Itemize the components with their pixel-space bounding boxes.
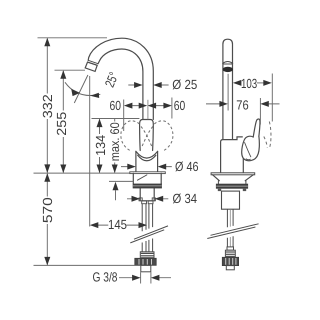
hose ferrule right: [148, 201, 153, 204]
dimension line 255: [62, 71, 64, 173]
escutcheon skirt diagonals: [213, 175, 254, 181]
supply hose lower segment (front view): [227, 236, 233, 247]
body right edge below handle: [242, 159, 244, 173]
locknut lug right: [243, 189, 246, 191]
thread stub: [226, 266, 234, 270]
spout swivel position line: [74, 75, 88, 103]
aerator ring lines (front view): [223, 62, 233, 65]
aerator outlet dark ellipse (front view): [223, 67, 233, 72]
extension line outlet axis vertical: [89, 76, 91, 227]
arrow G3/8 left: [132, 275, 141, 281]
threaded shank: [140, 188, 154, 201]
svg-text:103: 103: [241, 76, 257, 91]
arrow 255 top: [60, 70, 66, 79]
arrow diameter 46 right: [158, 164, 167, 170]
extension line body top: [92, 118, 140, 120]
dimension line diameter 34 shafts: [127, 198, 168, 200]
shank tab right: [152, 198, 155, 201]
lever pivot boss (front view): [242, 136, 260, 161]
locknut lug left: [218, 189, 221, 191]
boss crease line: [245, 143, 251, 157]
arrow 76 right: [260, 101, 269, 107]
boss bottom highlight: [246, 158, 250, 161]
arrow 332 bottom: [44, 164, 50, 173]
spout arc inner edge (side view): [98, 49, 143, 119]
countertop line: [34, 172, 130, 174]
spout arc outer edge (side view): [88, 38, 153, 119]
arrow max 60 upper: [112, 165, 118, 174]
body cylinder sides: [136, 151, 158, 172]
escutcheon flange (front view): [211, 173, 255, 175]
connector crimp sleeve: [225, 250, 235, 257]
extension line pipe axis (front view): [227, 74, 229, 111]
arrow max 60 lower: [113, 182, 119, 191]
locknut dark band (side view): [133, 184, 162, 189]
arrow 76 left: [219, 101, 228, 107]
arrow 60 left inner: [139, 103, 148, 109]
body (front view): [221, 137, 243, 173]
hose end connector (front view): [222, 247, 238, 270]
swivel arc arrowhead right: [90, 93, 99, 98]
connector nut: [222, 257, 238, 265]
hose end connector (side view): [135, 252, 156, 272]
mounting base below counter: [133, 173, 161, 183]
dimension line max 60 upper: [114, 119, 116, 173]
arrow 145 left: [90, 222, 99, 228]
svg-text:76: 76: [236, 97, 248, 112]
extension lines G3/8 stub: [141, 272, 151, 283]
svg-text:Ø 25: Ø 25: [172, 77, 197, 92]
body dome crescent arcs: [136, 151, 158, 160]
svg-text:G 3/8: G 3/8: [93, 270, 118, 285]
25 degree swivel arc: [65, 82, 100, 95]
aerator body (side view): [85, 62, 97, 71]
svg-text:60: 60: [174, 98, 186, 113]
svg-text:332: 332: [40, 94, 55, 118]
svg-text:60: 60: [110, 98, 122, 113]
hose ferrule left: [142, 201, 147, 204]
arrow G3/8 right: [151, 275, 160, 281]
shank tab left: [139, 198, 142, 201]
spout pipe (front view): [223, 39, 233, 139]
svg-text:134: 134: [93, 135, 108, 156]
pipe break symbol (side view): [130, 226, 168, 243]
lever blade (front view): [253, 119, 260, 137]
svg-text:570: 570: [40, 197, 55, 223]
arrow 134 bottom: [97, 165, 103, 174]
dimension line G3/8 shafts: [119, 277, 171, 279]
supply hoses upper segment (side view): [142, 204, 152, 232]
extension and tail line max 60 lower: [109, 181, 133, 200]
arrow 332 top: [44, 38, 50, 47]
arrow diameter 46 left: [127, 164, 136, 170]
arrow 134 top: [97, 119, 103, 128]
supply hoses lower segment (side view): [142, 239, 152, 252]
svg-text:max. 60: max. 60: [108, 122, 122, 161]
lever pin handle (side view): [140, 120, 154, 151]
extension line outlet height: [55, 69, 86, 71]
dimension line diameter 46 shafts: [121, 166, 172, 168]
arrow 570 top: [44, 173, 50, 182]
connector nut: [135, 258, 156, 265]
shank block (front view): [222, 191, 240, 209]
escutcheon base plate: [130, 172, 166, 174]
pipe break symbol (front view): [207, 224, 258, 239]
hose end reference line: [34, 264, 140, 266]
arrow 103 left: [233, 80, 242, 86]
dimension line 76 shafts: [206, 103, 280, 105]
mounting base detail line: [137, 175, 147, 180]
aerator junction band: [88, 60, 99, 65]
connector crimp sleeve: [140, 252, 154, 258]
svg-text:145: 145: [108, 217, 127, 232]
arrow 60 right outer: [163, 103, 172, 109]
extension line 103 right: [271, 74, 273, 122]
extension line lever tip: [259, 98, 261, 125]
dimension line diameter 25 shafts: [128, 84, 168, 86]
connector neck: [227, 247, 234, 250]
escutcheon neck sides: [218, 181, 246, 184]
dimension line 145: [98, 224, 139, 226]
locknut dark band (front view): [216, 184, 248, 189]
arrow 145 right: [139, 222, 148, 228]
arrow 570 bottom: [44, 257, 50, 266]
dashed handle swing positions (side view): [121, 121, 173, 151]
extension lines 60-60 outer: [124, 98, 172, 132]
arrow 255 bottom: [60, 165, 66, 174]
swivel arc arrowhead left: [71, 89, 80, 96]
svg-text:Ø 34: Ø 34: [173, 191, 198, 206]
arrow 60 right inner: [148, 103, 157, 109]
hose center line (front view): [229, 209, 231, 247]
dimension line 134: [99, 119, 101, 172]
arrow diameter 34 right: [155, 196, 164, 202]
dimension line 60-60 shafts: [132, 105, 164, 107]
dimension line 332: [46, 39, 48, 173]
extension line spout axis: [147, 100, 149, 119]
arrow 60 left outer: [124, 103, 132, 109]
G3/8 thread stub: [141, 265, 151, 271]
dimension line 570: [46, 174, 48, 265]
arrow 103 right: [263, 80, 272, 86]
supply hose upper segment (front view): [227, 209, 233, 227]
arrow diameter 25 right: [153, 82, 162, 88]
arrow diameter 25 left: [134, 82, 143, 88]
svg-text:255: 255: [54, 112, 69, 136]
extension line spout top: [38, 37, 108, 39]
dashed lever lifted position (front view): [264, 122, 271, 149]
dimension line 103 shaft: [257, 82, 264, 84]
arrow diameter 34 left: [132, 196, 141, 202]
svg-text:Ø 46: Ø 46: [175, 159, 199, 174]
